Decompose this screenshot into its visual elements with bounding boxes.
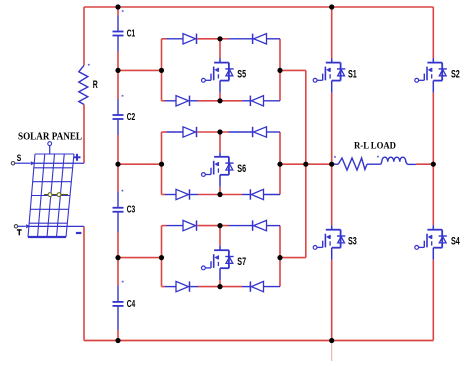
capacitor C4 lead upper xyxy=(117,286,119,302)
capacitor C3 xyxy=(113,208,124,212)
wire leg x331 top xyxy=(331,7,333,58)
wire cell1 left edge xyxy=(161,39,163,101)
junction dot 21 at (118,340.5) xyxy=(115,338,120,343)
junction dot 22 at (331.7,340.5) xyxy=(329,338,334,343)
diode D2c lead right xyxy=(190,194,198,196)
diode D2a xyxy=(183,127,197,137)
wire cell3 bottom rail left stub xyxy=(162,286,166,288)
mosfet S5 source lead xyxy=(219,81,221,93)
wire bus vertical xyxy=(305,70,307,257)
mosfet S3 source lead xyxy=(331,248,333,260)
label - terminal xyxy=(76,232,82,234)
mosfet S1 xyxy=(313,63,345,83)
solar panel - pin row line xyxy=(29,225,84,227)
wire cell2 top rail middle xyxy=(197,131,228,133)
wire cap-string segment top xyxy=(117,7,119,16)
mosfet S7 drain lead xyxy=(219,246,221,251)
capacitor C4 lead lower xyxy=(117,306,119,330)
capacitor C2 lead upper xyxy=(117,99,119,115)
svg-text:S6: S6 xyxy=(237,163,246,175)
junction dot 7 at (280,70.4) xyxy=(277,68,282,73)
wire cell1 center top xyxy=(219,39,221,58)
wire cell3 right edge xyxy=(279,226,281,287)
mosfet S2 drain lead xyxy=(432,58,434,63)
mosfet S7 xyxy=(202,250,234,270)
wire cell3 top rail middle xyxy=(197,225,228,227)
load inductor xyxy=(381,157,408,164)
junction dot 2 at (331.7,7) xyxy=(329,4,334,9)
wire leg x433 top xyxy=(432,7,434,58)
wire load right lead (blue) xyxy=(407,163,416,165)
junction dot 16 at (118,257.6) xyxy=(115,255,120,260)
diode D1c lead left xyxy=(165,100,176,102)
diode D1d xyxy=(250,96,263,106)
diode D3b lead left xyxy=(229,225,253,227)
wire cell2 output to H-bridge xyxy=(280,163,332,165)
diode D2c lead left xyxy=(165,194,176,196)
capacitor C2 lead lower xyxy=(117,119,119,135)
wire load middle (blue) xyxy=(367,163,381,165)
capacitor C1 xyxy=(113,32,124,36)
wire cap-string C4 to bottom rail xyxy=(117,330,119,341)
diode D3a xyxy=(183,220,197,230)
capacitor C1 lead lower xyxy=(117,36,119,52)
mosfet S6 xyxy=(202,157,234,177)
junction dot 17 at (161.5,257.6) xyxy=(159,255,164,260)
wire cell2 center bottom xyxy=(219,187,221,195)
mosfet S6 source lead xyxy=(219,175,221,187)
wire left leg faint continuation xyxy=(331,341,333,362)
wire bus cell1 to vertical xyxy=(280,69,306,71)
diode D1c lead right xyxy=(190,100,198,102)
diode D3b lead right xyxy=(267,225,281,227)
wire cap-string C3 to node C xyxy=(117,232,119,258)
wire cap-string C1 to node A xyxy=(117,52,119,71)
wire leg x331 middle xyxy=(331,93,333,226)
mosfet S6 drain lead xyxy=(219,152,221,157)
junction dot 13 at (305.8,164.2) xyxy=(303,162,308,167)
wire cell1 center bottom xyxy=(219,93,221,101)
wire cell3 center top xyxy=(219,226,221,246)
diode D3c xyxy=(176,281,190,291)
mosfet S3 xyxy=(313,230,345,250)
svg-text:S2: S2 xyxy=(451,69,460,81)
junction dot 6 at (220,100.8) xyxy=(217,98,222,103)
diode D2d xyxy=(250,189,263,199)
diode D1b xyxy=(253,34,267,44)
wire cell1 right edge xyxy=(279,39,281,101)
node marker dot 3 xyxy=(122,95,124,97)
wire cell3 center bottom xyxy=(219,280,221,286)
diode D1a xyxy=(183,34,197,44)
junction dot 8 at (118,164.2) xyxy=(115,162,120,167)
diode D2b lead left xyxy=(229,131,253,133)
diode D2d lead right xyxy=(264,194,281,196)
wire cap-string C2 to node B xyxy=(117,135,119,164)
resistor R xyxy=(79,65,88,104)
wire cell1 bottom rail left stub xyxy=(162,100,166,102)
wire left vertical lower (resistor to panel +) xyxy=(83,105,85,164)
svg-text:C2: C2 xyxy=(127,112,136,123)
node marker dot 7 xyxy=(377,156,379,158)
junction dot 1 at (118,7) xyxy=(115,4,120,9)
svg-text:C3: C3 xyxy=(127,205,136,216)
junction dot 15 at (433.3,164.2) xyxy=(431,162,436,167)
label T xyxy=(17,229,22,235)
junction dot 4 at (161.5,70.4) xyxy=(159,68,164,73)
wire cell1 top rail middle xyxy=(197,38,228,40)
junction dot 3 at (118,70.4) xyxy=(115,68,120,73)
mosfet S3 drain lead xyxy=(331,225,333,230)
junction dot 14 at (331.7,164.2) xyxy=(329,162,334,167)
diode D2b lead right xyxy=(267,131,281,133)
svg-text:S3: S3 xyxy=(348,235,357,247)
junction dot 5 at (220,38.8) xyxy=(217,36,222,41)
wire load right stub xyxy=(416,163,433,165)
node marker dot 4 xyxy=(121,190,123,192)
capacitor C2 xyxy=(113,115,124,119)
diode D3d xyxy=(250,281,263,291)
mosfet S4 source lead xyxy=(432,248,434,260)
diode D1d lead left xyxy=(242,100,250,102)
mosfet S4 drain lead xyxy=(432,225,434,230)
wire cell3 bottom rail middle xyxy=(198,286,242,288)
diode D3c lead left xyxy=(165,286,176,288)
wire cell2 left edge xyxy=(161,132,163,195)
diode D3d lead right xyxy=(264,286,281,288)
node S terminal xyxy=(11,161,35,165)
mosfet S2 source lead xyxy=(432,81,434,93)
junction dot 11 at (220,194.5) xyxy=(217,192,222,197)
wire node B stub xyxy=(118,163,162,165)
wire cell2 bottom rail left stub xyxy=(162,194,166,196)
capacitor C3 lead upper xyxy=(117,192,119,208)
svg-text:S4: S4 xyxy=(451,235,460,247)
junction dot 20 at (280,257.6) xyxy=(277,255,282,260)
diode D3b xyxy=(253,220,267,230)
wire cell2 center top xyxy=(219,132,221,152)
solar panel + pin row line xyxy=(34,162,84,164)
diode D3a lead left xyxy=(167,225,184,227)
load resistor xyxy=(338,158,367,170)
wire left bottom vertical (panel - to bottom rail) xyxy=(83,226,85,340)
diode D2b xyxy=(253,127,267,137)
node T terminal xyxy=(14,224,30,228)
wire cap-string node B to C3 xyxy=(117,164,119,191)
load resistor lead left xyxy=(332,163,339,165)
node marker dot 6 xyxy=(334,156,336,158)
diode D1b lead right xyxy=(267,38,281,40)
wire leg x433 middle xyxy=(432,93,434,226)
junction dot 9 at (161.5,164.2) xyxy=(159,162,164,167)
diode D3d lead left xyxy=(242,286,250,288)
capacitor C4 xyxy=(113,302,124,306)
node marker dot 2 xyxy=(88,64,90,66)
wire cell1 top rail left stub xyxy=(162,38,167,40)
node marker dot 1 xyxy=(122,10,124,12)
junction dot 18 at (220,225.6) xyxy=(217,223,222,228)
label + terminal xyxy=(74,154,81,161)
wire leg x331 bottom xyxy=(331,260,333,341)
mosfet S1 source lead xyxy=(331,81,333,93)
node marker dot 5 xyxy=(122,281,124,283)
diode D1a lead left xyxy=(167,38,184,40)
wire leg x433 bottom xyxy=(432,260,434,341)
wire cap-string node A to C2 xyxy=(117,70,119,99)
svg-text:C4: C4 xyxy=(127,299,136,310)
junction dot 12 at (280,164.2) xyxy=(277,162,282,167)
svg-text:R: R xyxy=(93,79,98,91)
wire top rail xyxy=(84,6,433,8)
junction dot 10 at (220,132) xyxy=(217,129,222,134)
svg-text:S1: S1 xyxy=(348,69,357,81)
mosfet S4 xyxy=(415,230,447,250)
svg-text:R-L LOAD: R-L LOAD xyxy=(354,141,396,152)
svg-text:SOLAR PANEL: SOLAR PANEL xyxy=(18,131,82,142)
diode D1c xyxy=(176,96,190,106)
wire cell2 right edge xyxy=(279,132,281,195)
wire cell1 bottom rail middle xyxy=(198,100,242,102)
wire bottom rail xyxy=(84,340,433,342)
wire node C stub xyxy=(118,257,162,259)
wire cell3 top rail left stub xyxy=(162,225,167,227)
wire left vertical upper (panel + to top rail) xyxy=(83,7,85,65)
solar panel PV array grid xyxy=(28,154,74,237)
mosfet S5 drain lead xyxy=(219,58,221,63)
wire cap-string node C to C4 xyxy=(117,258,119,286)
svg-text:S: S xyxy=(17,153,22,164)
mosfet S1 drain lead xyxy=(331,58,333,63)
diode D1b lead left xyxy=(229,38,253,40)
wire bus to cell3 xyxy=(280,257,306,259)
wire node A stub xyxy=(118,69,162,71)
solar panel internal tap xyxy=(44,193,68,197)
diode D2d lead left xyxy=(242,194,250,196)
mosfet S2 xyxy=(415,63,447,83)
diode D2c xyxy=(176,189,190,199)
svg-text:S5: S5 xyxy=(237,69,246,81)
svg-text:C1: C1 xyxy=(127,28,136,39)
mosfet S7 source lead xyxy=(219,268,221,280)
wire cell2 top rail left stub xyxy=(162,131,167,133)
diode D2a lead left xyxy=(167,131,184,133)
diode D3c lead right xyxy=(190,286,198,288)
svg-text:S7: S7 xyxy=(237,256,246,268)
capacitor C3 lead lower xyxy=(117,212,119,232)
diode D1d lead right xyxy=(264,100,281,102)
solar panel top terminal xyxy=(48,142,52,154)
wire cell2 bottom rail middle xyxy=(198,194,242,196)
junction dot 19 at (220,286.6) xyxy=(217,284,222,289)
mosfet S5 xyxy=(202,63,234,83)
wire cell3 left edge xyxy=(161,226,163,287)
capacitor C1 lead upper xyxy=(117,16,119,32)
